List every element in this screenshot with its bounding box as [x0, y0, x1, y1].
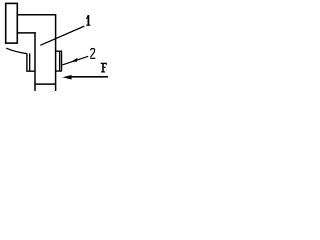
leader line for label 1: [40, 26, 84, 45]
wall bracket plate (left tall rectangle): [6, 3, 18, 43]
force arrow shaft: [71, 76, 108, 78]
left clamp inner wall: [29, 53, 31, 71]
wire: lower horizontal pipe line: [17, 32, 35, 34]
label 2 (drawn as path): [90, 49, 95, 59]
wire: inner vertical pipe line: [34, 32, 36, 91]
left clamp outer wall: [27, 53, 35, 71]
leader line for label 2: [62, 56, 88, 65]
wire: upper horizontal pipe line: [17, 14, 55, 16]
wire: bottom crossbar: [35, 83, 56, 85]
label F (drawn as path): [101, 63, 107, 73]
force arrow F (pointing left): [62, 75, 71, 80]
right clamp plate (part 2): [56, 51, 62, 71]
arrowhead on leader 2: [69, 58, 77, 63]
wire: curved cable from bracket bottom: [6, 48, 27, 53]
label 1 (drawn as path): [86, 15, 90, 26]
right clamp inner wall: [59, 51, 61, 71]
wire: outer vertical pipe line: [55, 14, 57, 91]
